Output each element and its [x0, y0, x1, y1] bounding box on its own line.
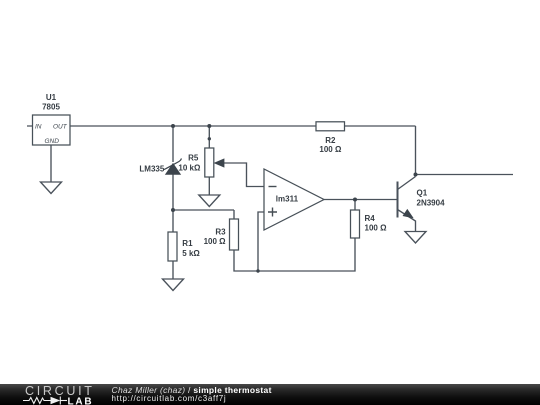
svg-text:100 Ω: 100 Ω — [319, 145, 342, 154]
svg-text:U1: U1 — [46, 93, 57, 102]
svg-text:lm311: lm311 — [276, 195, 299, 204]
svg-text:5 kΩ: 5 kΩ — [182, 249, 200, 258]
svg-text:R3: R3 — [215, 227, 226, 236]
svg-text:R1: R1 — [182, 239, 193, 248]
svg-text:100 Ω: 100 Ω — [204, 237, 227, 246]
svg-text:2N3904: 2N3904 — [417, 198, 446, 207]
svg-text:R5: R5 — [188, 154, 199, 163]
svg-text:7805: 7805 — [42, 102, 60, 111]
svg-text:Q1: Q1 — [417, 189, 428, 198]
svg-text:R2: R2 — [325, 136, 336, 145]
svg-text:LAB: LAB — [68, 397, 94, 405]
svg-text:10 kΩ: 10 kΩ — [178, 163, 201, 172]
svg-text:GND: GND — [45, 138, 60, 145]
svg-text:R4: R4 — [365, 214, 376, 223]
svg-text:OUT: OUT — [53, 124, 68, 131]
svg-text:IN: IN — [35, 124, 42, 131]
svg-text:LM335: LM335 — [139, 165, 164, 174]
svg-text:100 Ω: 100 Ω — [365, 223, 388, 232]
